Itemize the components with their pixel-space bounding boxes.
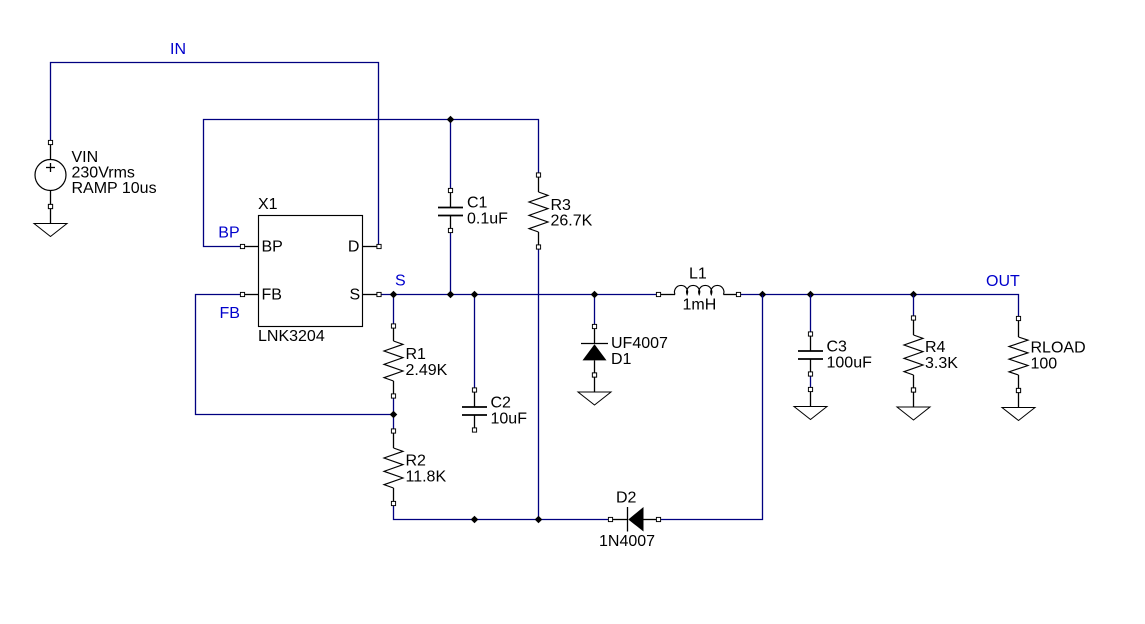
capacitor C3 [798,332,823,376]
ground for VIN [34,204,67,236]
svg-text:IN: IN [170,41,186,58]
pin BP stub [240,244,258,248]
junction S bus / R4 [910,291,918,299]
svg-text:X1: X1 [258,196,278,213]
wire C3 drop from S bus [810,295,812,335]
diode D1 UF4007 (vertical, cathode bar up, to ground) [581,324,608,377]
capacitor C1 [438,188,463,232]
svg-text:1mH: 1mH [683,297,717,314]
resistor R2 [384,429,403,506]
wire BP net: BP pin left, up, across top bus, down to R3 top [204,120,539,247]
wire link between R1 bottom and R2 top [393,396,395,431]
junction S bus / C3 [807,291,815,299]
svg-text:BP: BP [218,225,239,242]
junction FB wire / R1-R2 divider [390,411,398,419]
wire bottom bus from R2 bottom to D2 left terminal [394,504,610,520]
wire D1 drop from S bus [594,295,596,327]
wire D2 riser: from S bus down and left to D2 right terminal [661,295,763,520]
ground for RLOAD [1002,388,1035,420]
resistor RLOAD [1009,316,1028,392]
voltage source VIN (sine source symbol) [35,140,66,208]
pin FB stub [240,292,258,296]
svg-text:FB: FB [262,286,282,303]
wire FB net: FB pin left, down, right to R1-R2 divider junction [196,295,394,415]
junction bottom bus / R3 drop [535,516,543,524]
junction bottom bus / C2 [471,516,479,524]
ground for D1 [578,373,611,405]
junction S bus / C1 [447,291,455,299]
wire C2 top drop from S bus [474,295,476,391]
junction S bus / D2 riser [759,291,767,299]
wire C3 bottom to its ground terminal [810,374,812,390]
svg-text:LNK3204: LNK3204 [258,328,325,345]
resistor R3 [529,173,548,249]
resistor R1 [384,324,403,398]
wire R1 top drop from S bus [393,295,395,327]
svg-text:BP: BP [262,238,283,255]
wire S bus from S pin to L1 left terminal [381,294,659,296]
resistor R4 [904,316,923,392]
IC U1/X1 LNK3204 body [259,216,363,327]
wire R4 drop from S bus [913,295,915,319]
svg-text:1N4007: 1N4007 [599,533,655,550]
svg-text:D: D [348,238,360,255]
junction S bus / D1 [591,291,599,299]
diode D2 1N4007 (horizontal, cathode bar left) [608,507,660,532]
wire C1 top drop from top bus [450,120,452,191]
svg-text:S: S [395,273,406,290]
junction S bus / R1 divider [390,291,398,299]
wire IN net: from VIN top terminal up, across the top, down to D pin [51,63,379,247]
svg-text:D2: D2 [616,490,637,507]
ground for C3 [794,387,827,419]
svg-text:OUT: OUT [986,273,1020,290]
svg-text:FB: FB [220,305,240,322]
wire R3 bottom drop crossing S bus down to bottom bus [538,247,540,520]
junction top bus / C1 [447,116,455,124]
inductor L1 [656,285,740,296]
junction S bus / C2 [471,291,479,299]
svg-text:L1: L1 [689,266,707,283]
wire S bus from L1 right terminal to OUT corner and down to RLOAD [739,295,1019,319]
wire C1 bottom to S bus [450,231,452,295]
capacitor C2 [462,388,487,432]
pin D stub [363,244,382,248]
pin S stub [363,292,382,296]
svg-text:S: S [350,286,361,303]
ground for R4 [897,388,930,420]
